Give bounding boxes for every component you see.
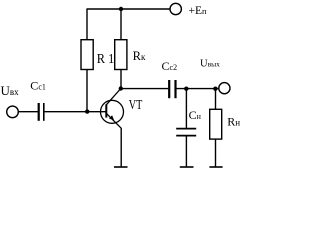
wire top supply rail [87,8,171,10]
svg-text:Uвх: Uвх [1,83,20,98]
svg-text:Rк: Rк [133,49,146,63]
node Rn junction [213,87,217,91]
wire Cn top lead [185,89,187,128]
resistor Rk [115,40,127,70]
resistor R1 [81,40,93,70]
wire Rn bottom lead [215,139,217,167]
resistor Rн [210,109,222,139]
input terminal Uвх [7,106,19,118]
transistor VT [101,89,124,129]
svg-text:Rн: Rн [227,115,240,129]
wire Cn bottom lead [185,136,187,167]
wire Rn top lead [215,89,217,110]
svg-text:Сс1: Сс1 [30,79,46,93]
wire R1 bottom lead [86,70,88,113]
power terminal +Eп [170,3,181,14]
wire Rk top lead [120,9,122,40]
wire input to Cc1 [18,111,38,113]
ground Cn [180,166,194,168]
svg-text:+Еп: +Еп [189,5,208,17]
capacitor Cс1 [39,103,44,121]
ground Rn [209,166,222,168]
node collector junction [119,86,123,90]
wire Cc1 to base [45,111,107,113]
svg-text:VT: VT [129,98,143,113]
svg-text:Uвых: Uвых [200,58,220,69]
wire collector to Cc2 [121,88,168,90]
wire R1 top lead [86,9,88,40]
wire Cc2 to output terminal [177,88,219,90]
wire Rk bottom lead (collector) [120,70,122,89]
node Cn junction [184,87,188,91]
svg-text:Сн: Сн [189,108,202,122]
wire emitter down [120,128,122,167]
ground emitter [114,166,128,168]
svg-text:R 1: R 1 [97,51,115,66]
node base junction [85,109,89,113]
capacitor Cн [176,129,196,136]
output terminal Uвых [219,83,230,94]
node junction rail to Rk [119,7,123,11]
svg-text:Сс2: Сс2 [162,59,178,73]
capacitor Cс2 [169,80,175,98]
